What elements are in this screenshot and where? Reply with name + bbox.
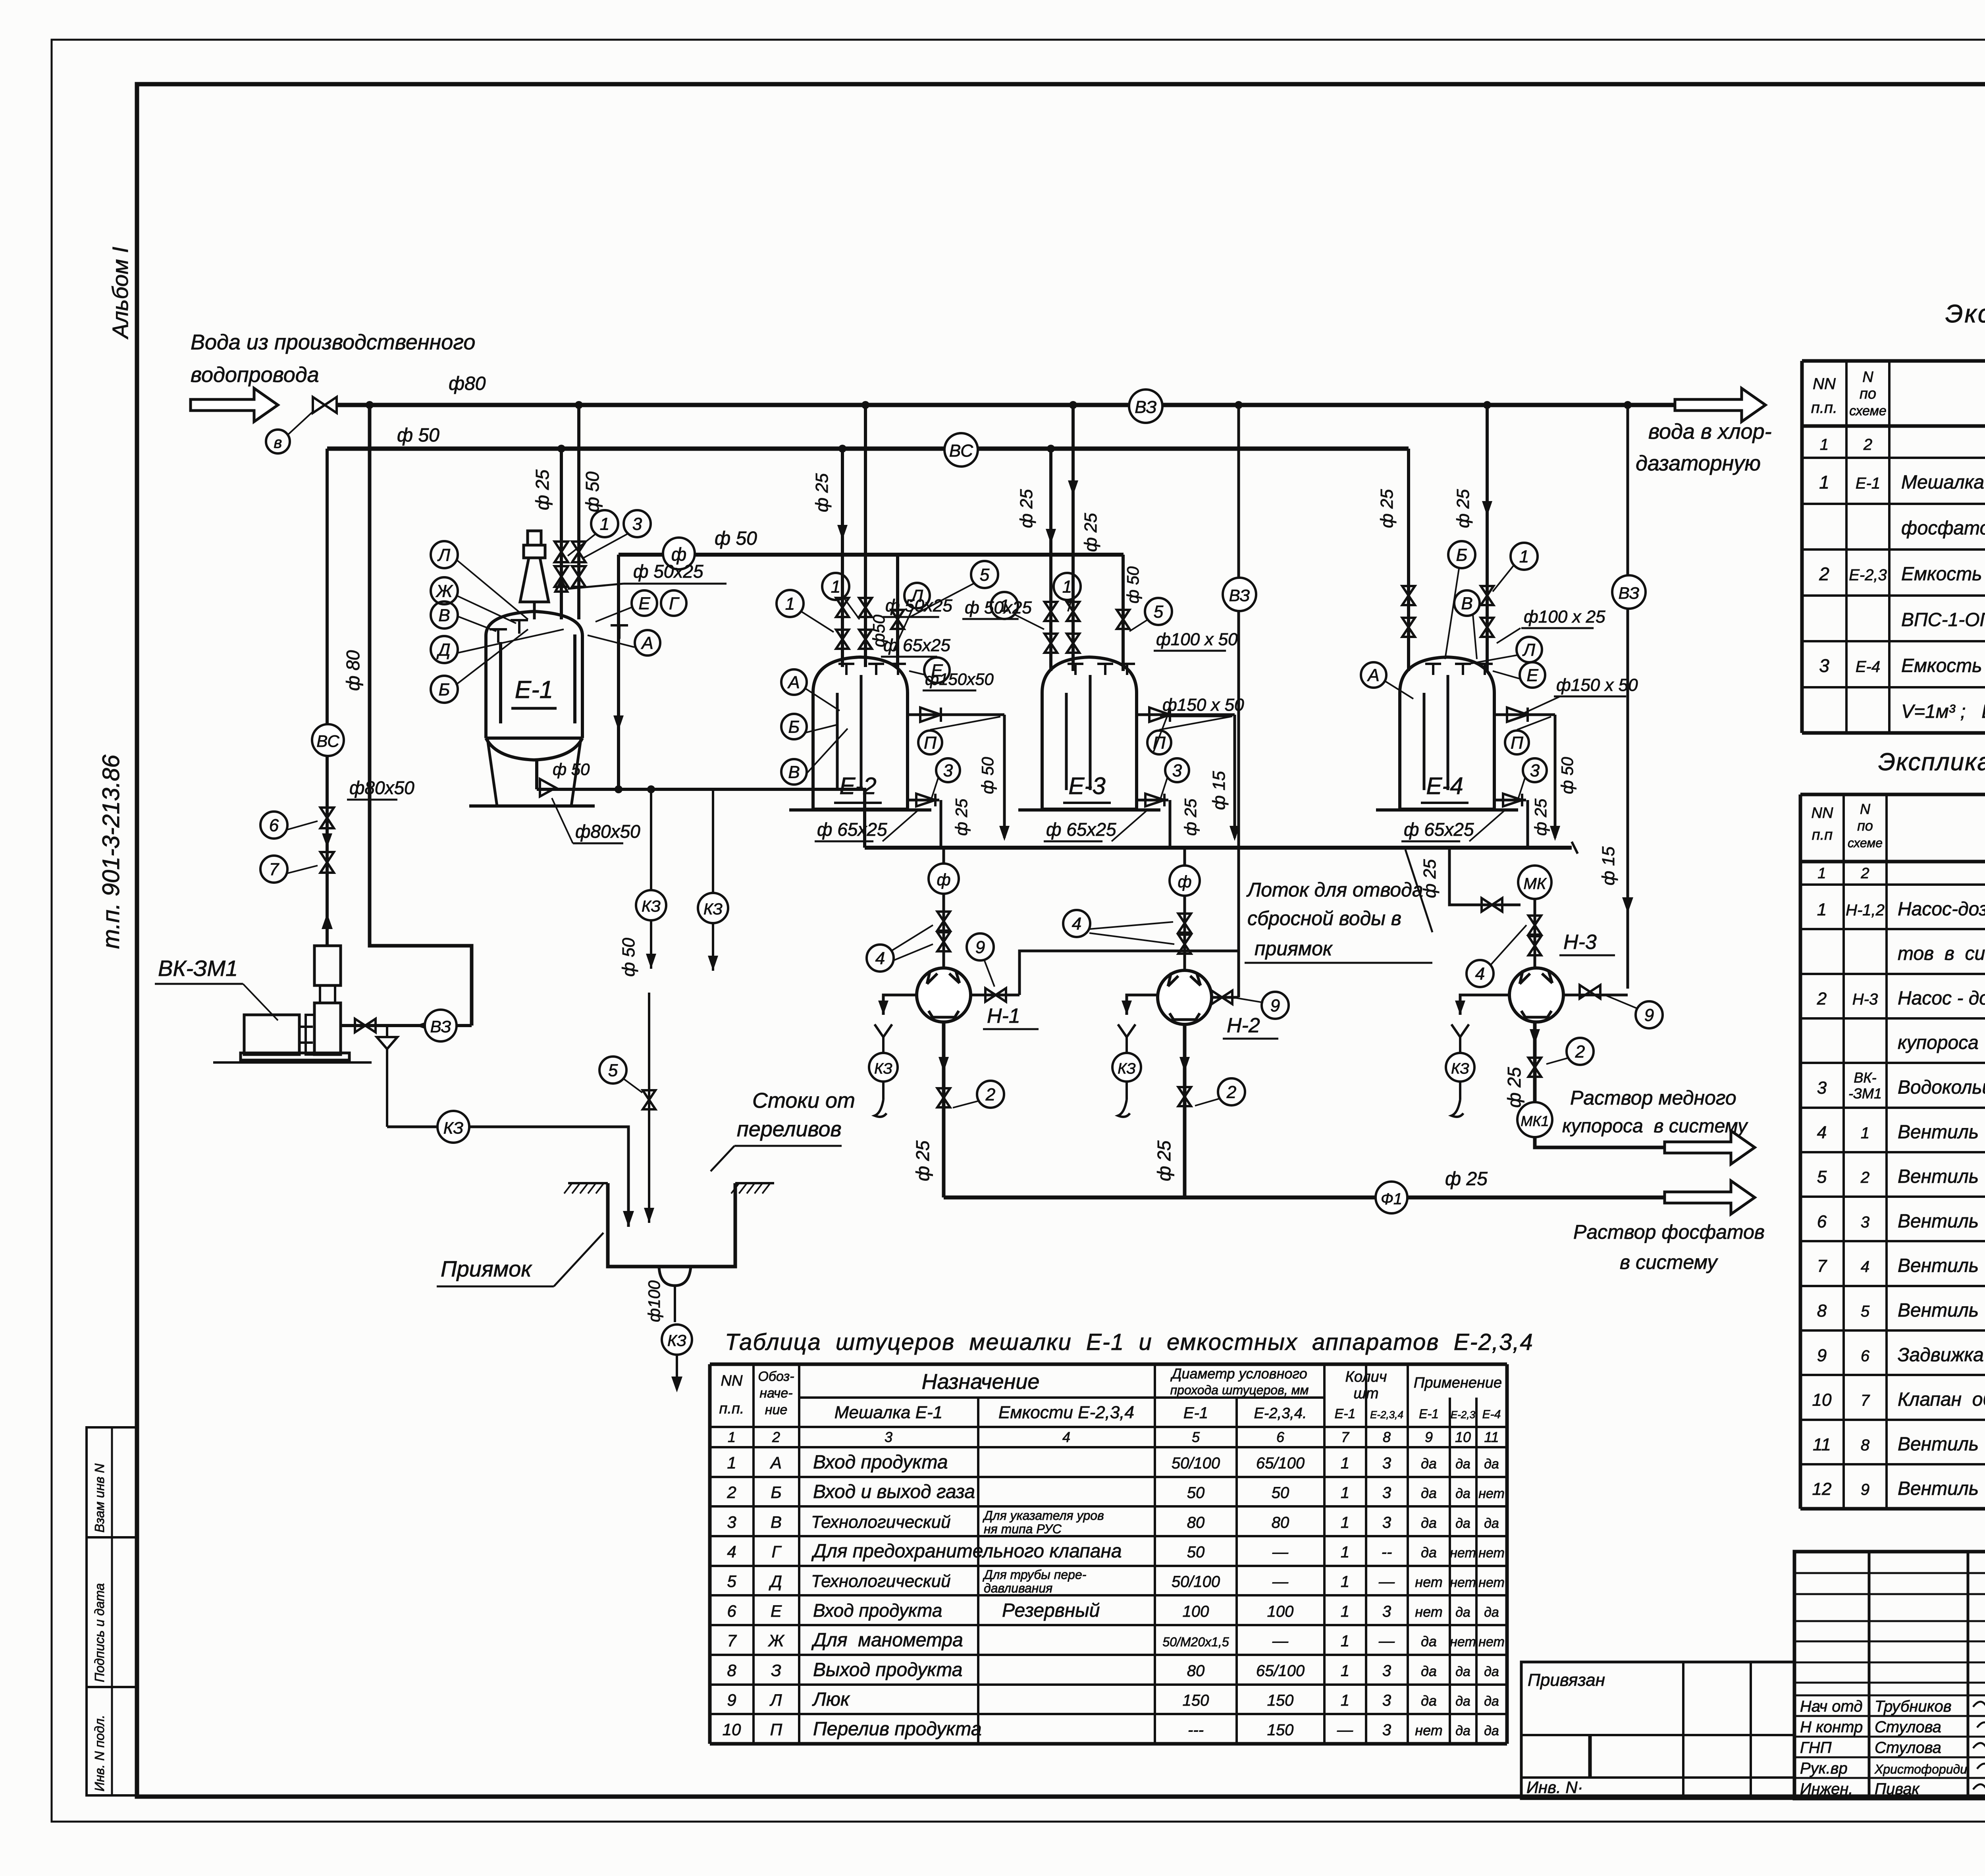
svg-text:--: -- <box>1382 1543 1392 1561</box>
svg-text:нет: нет <box>1415 1574 1442 1590</box>
svg-text:да: да <box>1455 1724 1470 1739</box>
pipe VS drop to compressor <box>326 449 329 946</box>
pipe main VZ line f80 <box>337 403 1675 407</box>
svg-text:1: 1 <box>1817 900 1827 919</box>
svg-text:Люк: Люк <box>812 1689 850 1710</box>
svg-text:7: 7 <box>1817 1257 1827 1276</box>
svg-text:4: 4 <box>1062 1429 1070 1445</box>
svg-text:50/100: 50/100 <box>1172 1573 1220 1591</box>
svg-text:да: да <box>1484 1664 1499 1679</box>
svg-text:3: 3 <box>1382 1603 1391 1620</box>
tank Е-2 vessel <box>813 657 908 809</box>
svg-text:3: 3 <box>885 1429 892 1445</box>
svg-text:да: да <box>1455 1694 1470 1709</box>
svg-text:нет: нет <box>1478 1575 1505 1590</box>
svg-text:3: 3 <box>727 1513 736 1531</box>
svg-text:Трубников: Трубников <box>1875 1698 1952 1715</box>
K3 drop 1 under E-1 <box>650 789 652 890</box>
svg-text:Колич: Колич <box>1345 1369 1387 1385</box>
valve tag circle 2 at H-2 <box>1218 1078 1245 1105</box>
pipe H-2 suction from seal drop <box>1212 996 1239 999</box>
svg-text:нет: нет <box>1450 1545 1476 1560</box>
valve tag circle 6 <box>260 812 287 839</box>
line tag circle ВС <box>944 433 978 467</box>
svg-text:ф 50: ф 50 <box>715 528 757 549</box>
svg-text:7: 7 <box>1341 1429 1350 1445</box>
svg-text:Е-2,3,4: Е-2,3,4 <box>1370 1409 1403 1421</box>
valve at inlet <box>313 397 337 413</box>
line tag circle МК <box>1518 866 1551 899</box>
line tag circle МК1 <box>1517 1102 1552 1137</box>
svg-text:Д: Д <box>436 640 451 659</box>
valve tag circle 9 at H-3 <box>1636 1001 1663 1028</box>
svg-text:Диаметр условного: Диаметр условного <box>1170 1365 1307 1382</box>
pipe K3 drain line to pit <box>387 1127 628 1227</box>
svg-text:нет: нет <box>1415 1722 1442 1739</box>
svg-text:нет: нет <box>1450 1635 1476 1650</box>
svg-text:Рук.вр: Рук.вр <box>1800 1760 1848 1777</box>
svg-text:—: — <box>1378 1573 1395 1591</box>
svg-text:ф 25: ф 25 <box>1445 1168 1488 1190</box>
svg-text:100: 100 <box>1267 1603 1294 1620</box>
svg-text:Инв. N·: Инв. N· <box>1526 1778 1583 1797</box>
svg-text:5: 5 <box>1192 1429 1200 1445</box>
svg-text:да: да <box>1455 1605 1470 1620</box>
svg-text:Ф1: Ф1 <box>1381 1190 1402 1208</box>
svg-text:—: — <box>1272 1543 1289 1561</box>
tank E-1 mixer vessel <box>486 611 582 738</box>
svg-text:КЗ: КЗ <box>874 1060 892 1077</box>
svg-text:3: 3 <box>1382 1454 1391 1472</box>
svg-text:Для манометра: Для манометра <box>811 1630 963 1651</box>
svg-text:9: 9 <box>1861 1481 1869 1498</box>
svg-text:10: 10 <box>1455 1429 1471 1445</box>
svg-text:6: 6 <box>1276 1429 1285 1445</box>
svg-text:4: 4 <box>1861 1258 1869 1276</box>
svg-text:да: да <box>1421 1485 1437 1501</box>
svg-text:5: 5 <box>727 1572 736 1591</box>
svg-text:Л: Л <box>1522 640 1536 659</box>
svg-text:ф 15: ф 15 <box>1599 846 1618 885</box>
svg-text:Подпись и дата: Подпись и дата <box>92 1583 107 1682</box>
svg-text:Е-2,3: Е-2,3 <box>1451 1409 1476 1421</box>
valves on H-2 feed <box>1178 914 1191 933</box>
callout underline <box>1245 962 1432 964</box>
svg-text:ф: ф <box>1178 872 1191 891</box>
pit bottom outlet <box>659 1267 691 1286</box>
valve on gas line <box>355 1019 376 1032</box>
svg-text:Е-2,3: Е-2,3 <box>1849 567 1887 584</box>
svg-text:1: 1 <box>1817 865 1826 882</box>
svg-text:П: П <box>924 733 937 752</box>
svg-text:ф 25: ф 25 <box>1017 489 1036 528</box>
svg-text:150: 150 <box>1267 1692 1294 1709</box>
svg-text:ня типа РУС: ня типа РУС <box>984 1522 1062 1536</box>
svg-text:3: 3 <box>1861 1213 1869 1231</box>
svg-text:7: 7 <box>1861 1392 1870 1409</box>
svg-text:Е-4: Е-4 <box>1482 1408 1501 1421</box>
title block upper grid rows <box>1794 1572 1985 1574</box>
svg-text:5: 5 <box>980 565 990 584</box>
line tag circle Ф1 <box>1376 1182 1407 1213</box>
tank Е-4 internal tubes <box>1423 693 1426 790</box>
svg-text:ВЗ: ВЗ <box>1619 584 1640 602</box>
svg-text:2: 2 <box>1575 1042 1585 1061</box>
svg-text:нет: нет <box>1478 1545 1505 1560</box>
svg-text:Б: Б <box>771 1483 781 1502</box>
svg-text:Е-1: Е-1 <box>1335 1406 1356 1421</box>
svg-text:Е: Е <box>1526 665 1538 685</box>
ground hatch left of pit <box>568 1182 608 1184</box>
svg-text:Технологический: Технологический <box>811 1571 951 1591</box>
svg-text:ф 25: ф 25 <box>812 473 832 512</box>
svg-text:ВК-ЗМ1: ВК-ЗМ1 <box>158 956 238 981</box>
svg-text:—: — <box>1272 1633 1289 1650</box>
pipe H-1 discharge loop to seal line <box>971 994 1019 997</box>
svg-text:Н контр: Н контр <box>1800 1718 1863 1736</box>
junction dots on VS line <box>557 445 565 453</box>
valve tag circle 2 at H-1 <box>977 1081 1004 1108</box>
svg-text:ф 25: ф 25 <box>1377 489 1397 528</box>
svg-text:нет: нет <box>1450 1575 1476 1590</box>
nozzle tag circle П <box>918 731 942 754</box>
line tag circle КЗ on drain <box>437 1111 469 1143</box>
svg-text:Е: Е <box>638 594 650 613</box>
svg-text:Вход продукта: Вход продукта <box>813 1452 948 1473</box>
svg-text:3: 3 <box>632 514 642 534</box>
valve tag circles at E-2 feeds <box>777 590 804 617</box>
pipe copper solution outlet <box>1535 1137 1665 1147</box>
junction dots on VZ main <box>366 401 374 409</box>
svg-text:Клапан обратный 19ч21бр; Ду: Клапан обратный 19ч21бр; Ду 80, Ру 1,6Мп… <box>1898 1389 1985 1410</box>
svg-text:2: 2 <box>1226 1082 1236 1102</box>
svg-text:в: в <box>274 434 282 451</box>
svg-text:Г: Г <box>772 1542 782 1561</box>
valves on E-1 f25 feed <box>555 542 568 562</box>
svg-text:1: 1 <box>1341 1662 1349 1679</box>
svg-text:-ЗМ1: -ЗМ1 <box>1848 1085 1882 1102</box>
svg-text:да: да <box>1455 1456 1470 1471</box>
svg-text:1: 1 <box>1819 472 1829 493</box>
valves on E-4 feeds <box>1402 586 1415 605</box>
table explication of apparatus <box>1802 359 1985 363</box>
svg-text:Вентиль 15ч 64п; Ду 50; Р: Вентиль 15ч 64п; Ду 50; Ру 0,6Мпа <box>1898 1300 1985 1321</box>
svg-text:10: 10 <box>1812 1390 1832 1410</box>
svg-text:т.п. 901-3-213.86: т.п. 901-3-213.86 <box>98 754 124 949</box>
svg-text:ф 25: ф 25 <box>1453 489 1473 528</box>
svg-text:ВЗ: ВЗ <box>430 1017 451 1036</box>
svg-text:Экспликация аппаратов: Экспликация аппаратов <box>1945 299 1985 328</box>
svg-text:6: 6 <box>1817 1212 1827 1231</box>
svg-text:ф 50: ф 50 <box>1124 566 1142 603</box>
svg-text:11: 11 <box>1484 1429 1499 1445</box>
svg-text:п.п: п.п <box>1812 827 1833 843</box>
tank E-1 support legs <box>488 739 497 806</box>
svg-text:1: 1 <box>1341 1692 1349 1709</box>
svg-text:50: 50 <box>1272 1484 1289 1502</box>
svg-text:да: да <box>1421 1455 1437 1471</box>
svg-text:Альбом I: Альбом I <box>108 247 133 339</box>
svg-text:65/100: 65/100 <box>1256 1662 1305 1679</box>
svg-text:50: 50 <box>1187 1543 1205 1561</box>
valve tag circles at E-4 <box>1448 541 1475 568</box>
svg-text:Е-4: Е-4 <box>1856 658 1880 676</box>
svg-text:50/М20х1,5: 50/М20х1,5 <box>1162 1635 1229 1649</box>
tank bottom drain and valve <box>1137 799 1168 802</box>
svg-text:8: 8 <box>1817 1301 1827 1321</box>
svg-text:нет: нет <box>1478 1635 1505 1650</box>
line tag circle КЗ at pump <box>1112 1053 1141 1082</box>
svg-text:ф: ф <box>937 870 950 889</box>
pipe branch f25 to pump H-3 <box>1449 848 1521 905</box>
svg-text:Е-1: Е-1 <box>1856 475 1880 492</box>
pipe feed f50 from VZ main to E-1 <box>577 405 580 619</box>
svg-text:Вентиль 15кч18п; Ду 15, Ру: Вентиль 15кч18п; Ду 15, Ру 1,6Мпа <box>1898 1478 1985 1499</box>
svg-text:Б: Б <box>788 717 800 737</box>
svg-text:—: — <box>1272 1573 1289 1591</box>
svg-text:5: 5 <box>1154 602 1164 621</box>
pipe f25 feed from VZ main to E-4 <box>1486 405 1489 671</box>
svg-text:да: да <box>1421 1693 1437 1709</box>
svg-text:в систему: в систему <box>1620 1251 1718 1273</box>
svg-text:Е-2: Е-2 <box>839 773 876 799</box>
svg-text:Задвижка 30ч6бр; Ду 80; Р: Задвижка 30ч6бр; Ду 80; Ру 1,0Мпа <box>1898 1344 1985 1365</box>
svg-text:12: 12 <box>1812 1479 1832 1499</box>
svg-text:1: 1 <box>727 1453 736 1472</box>
svg-text:да: да <box>1421 1544 1437 1560</box>
svg-text:3: 3 <box>1530 761 1540 780</box>
svg-text:Приямок: Приямок <box>441 1256 532 1281</box>
svg-text:5: 5 <box>608 1060 618 1080</box>
svg-text:2: 2 <box>1819 564 1829 584</box>
pipe feed to H-2 with sample circle Ф <box>1183 848 1186 970</box>
nozzle tag circle П <box>1505 731 1529 754</box>
pipe waste collection line to pit channel <box>865 846 1572 850</box>
pit priyamok walls <box>608 1183 735 1267</box>
svg-text:ф80х50: ф80х50 <box>349 777 414 798</box>
svg-text:да: да <box>1421 1633 1437 1650</box>
pipe f15 drop to H-3 pump <box>1627 405 1629 989</box>
svg-text:схеме: схеме <box>1849 403 1887 418</box>
svg-text:Н-1: Н-1 <box>987 1005 1020 1028</box>
svg-text:по: по <box>1857 817 1873 834</box>
svg-text:Водокольцевой компрессор ВК-: Водокольцевой компрессор ВК-ЗМ1 <box>1898 1077 1985 1098</box>
outlet arrow phosphate solution <box>1665 1181 1755 1214</box>
svg-text:3: 3 <box>943 761 953 780</box>
pipe f25 feed from VS end to E-4 <box>1407 449 1410 671</box>
valve tag circles at E-3 feeds <box>991 592 1018 619</box>
svg-text:КЗ: КЗ <box>667 1332 686 1350</box>
svg-text:2: 2 <box>1817 989 1827 1008</box>
valve tag circle 4 at H-2 <box>1063 910 1090 937</box>
svg-text:Ж: Ж <box>436 581 453 601</box>
svg-text:Технологический: Технологический <box>811 1512 951 1532</box>
line tag circle ВЗ on main <box>1129 389 1162 423</box>
svg-text:Е-2,3,4.: Е-2,3,4. <box>1254 1405 1307 1422</box>
svg-text:ф 25: ф 25 <box>1081 513 1100 552</box>
svg-text:ф 50х25: ф 50х25 <box>885 596 952 615</box>
line tag circle Ф <box>663 538 695 569</box>
title block vertical dividers <box>1868 1552 1871 1799</box>
valve tag circle 5 at pit <box>599 1057 626 1084</box>
valve tag circle 9 at H-2 <box>1262 992 1289 1019</box>
svg-text:4: 4 <box>727 1542 736 1561</box>
svg-text:4: 4 <box>1817 1123 1827 1142</box>
svg-text:Вентиль 15кч18п; Ду 50, Р: Вентиль 15кч18п; Ду 50, Ру 1,6Мпа <box>1898 1211 1985 1232</box>
svg-text:Стулова: Стулова <box>1875 1739 1941 1756</box>
inlet arrow water from production line <box>191 388 278 422</box>
svg-text:9: 9 <box>1817 1346 1827 1365</box>
svg-text:Вентиль 15кч 18п; Ду 25, Р: Вентиль 15кч 18п; Ду 25, Ру 1,6Мпа <box>1898 1122 1985 1143</box>
svg-text:да: да <box>1484 1694 1499 1709</box>
svg-text:ф 50: ф 50 <box>582 471 603 512</box>
tank E-1 internal dip tubes <box>499 642 502 723</box>
left margin stamp table <box>87 1427 137 1795</box>
svg-text:Д: Д <box>769 1572 782 1591</box>
pump suction funnel line <box>1127 995 1158 1015</box>
svg-text:ние: ние <box>765 1402 788 1417</box>
svg-text:да: да <box>1484 1456 1499 1471</box>
svg-text:---: --- <box>1188 1722 1204 1739</box>
nozzle tag circle Е right of E-2 <box>924 657 950 683</box>
svg-text:ф80: ф80 <box>449 373 486 394</box>
svg-text:100: 100 <box>1183 1603 1209 1620</box>
svg-text:1: 1 <box>1861 1124 1869 1142</box>
svg-text:да: да <box>1484 1605 1499 1620</box>
svg-text:9: 9 <box>1270 996 1280 1015</box>
svg-text:3: 3 <box>1819 656 1829 676</box>
svg-text:ф 65х25: ф 65х25 <box>817 819 887 840</box>
svg-text:ВЗ: ВЗ <box>1229 586 1250 605</box>
tank bottom drain and valve <box>1494 799 1526 802</box>
svg-text:КЗ: КЗ <box>443 1118 464 1137</box>
svg-text:3: 3 <box>1382 1662 1391 1679</box>
svg-text:да: да <box>1455 1486 1470 1501</box>
tank E-1 nozzles on dome <box>490 628 507 630</box>
pipe f80 drop from main to gas line <box>370 405 472 1026</box>
svg-text:ф 25: ф 25 <box>1504 1067 1524 1108</box>
svg-text:А: А <box>1366 665 1379 685</box>
svg-text:Е: Е <box>771 1602 782 1620</box>
svg-text:В: В <box>771 1513 782 1531</box>
svg-text:Привязан: Привязан <box>1528 1670 1605 1690</box>
attachment table left of stamp <box>1521 1662 1794 1799</box>
pump Н-2 dosing pump <box>1158 970 1212 1024</box>
svg-text:ф 65х25: ф 65х25 <box>883 636 950 655</box>
svg-text:1: 1 <box>1341 1603 1349 1620</box>
svg-text:1: 1 <box>1341 1484 1349 1502</box>
svg-text:Ж: Ж <box>768 1631 785 1650</box>
tank bottom drain and valve <box>908 799 939 802</box>
svg-text:П: П <box>770 1720 782 1739</box>
svg-text:ВПС-1-ОГ-001: ВПС-1-ОГ-001 <box>1901 609 1985 630</box>
pipe H-1 discharge down <box>942 1022 946 1197</box>
valves on E-3 feeds <box>1045 602 1057 621</box>
svg-text:Е-4: Е-4 <box>1426 773 1463 799</box>
svg-text:Г: Г <box>669 594 680 613</box>
svg-text:3: 3 <box>1382 1514 1391 1531</box>
svg-text:9: 9 <box>727 1691 736 1709</box>
svg-text:Н-1,2: Н-1,2 <box>1846 901 1885 919</box>
svg-text:ф150 х 50: ф150 х 50 <box>1162 695 1244 715</box>
tank overflow stub and riser <box>908 713 1004 716</box>
svg-text:ф 50х25: ф 50х25 <box>633 561 703 582</box>
drain funnel under gas line <box>386 1026 388 1037</box>
svg-text:2: 2 <box>727 1483 736 1502</box>
svg-text:ф100: ф100 <box>645 1280 663 1322</box>
svg-text:1: 1 <box>1062 577 1072 596</box>
line tag circle КЗ under pit <box>662 1325 692 1355</box>
svg-text:1: 1 <box>1341 1633 1349 1650</box>
svg-text:Насос - дозатор для подачи: Насос - дозатор для подачи раствора медн… <box>1898 988 1985 1009</box>
svg-text:да: да <box>1455 1664 1470 1679</box>
air arrow up into VS drop <box>322 913 333 929</box>
svg-text:3: 3 <box>1817 1078 1827 1098</box>
svg-text:З: З <box>771 1661 781 1679</box>
svg-text:Стулова: Стулова <box>1875 1718 1941 1736</box>
svg-text:4: 4 <box>875 949 885 968</box>
tank Е-3 base line <box>1018 808 1160 812</box>
svg-text:В: В <box>438 605 450 625</box>
svg-text:да: да <box>1484 1516 1499 1531</box>
svg-text:Л: Л <box>437 545 451 565</box>
line tag circle ВЗ at compressor <box>425 1010 457 1041</box>
svg-text:50: 50 <box>1187 1484 1205 1502</box>
pipe f50 feed from F line to E-2 <box>896 555 899 667</box>
svg-text:Емкость для раствора медного к: Емкость для раствора медного купороса <box>1901 656 1985 677</box>
tank Е-4 base line <box>1376 808 1518 812</box>
outlet arrow to chlorine dosing room <box>1675 388 1765 422</box>
svg-text:ф150х50: ф150х50 <box>925 670 994 688</box>
svg-text:Б: Б <box>439 680 450 699</box>
svg-text:Применение: Применение <box>1414 1375 1502 1391</box>
table of nozzles <box>710 1363 1507 1366</box>
svg-text:МК1: МК1 <box>1521 1113 1549 1129</box>
svg-text:Взам инв N: Взам инв N <box>92 1463 107 1533</box>
pipe F distribution line f50 to tanks <box>619 553 1124 557</box>
svg-text:ВЗ: ВЗ <box>1135 397 1156 417</box>
svg-text:1: 1 <box>831 577 840 596</box>
svg-text:7: 7 <box>727 1631 737 1650</box>
svg-text:Л: Л <box>769 1691 782 1709</box>
svg-text:п.п.: п.п. <box>1811 399 1837 416</box>
svg-text:7: 7 <box>269 860 279 879</box>
pipe f25 feeds to E-2 <box>841 449 844 667</box>
svg-text:ф100 х 25: ф100 х 25 <box>1524 607 1605 627</box>
pipe f25 feeds to E-3 <box>1049 449 1052 671</box>
svg-text:Лоток для отвода: Лоток для отвода <box>1246 879 1423 901</box>
svg-text:80: 80 <box>1187 1662 1205 1679</box>
svg-text:ГНП: ГНП <box>1800 1739 1832 1756</box>
svg-text:Н-3: Н-3 <box>1563 931 1597 954</box>
ground line under compressor <box>213 1061 372 1064</box>
svg-text:Вентиль 15ч14бр; Ду 80; Ру: Вентиль 15ч14бр; Ду 80; Ру 1,6Мпа <box>1898 1434 1985 1455</box>
svg-text:Назначение: Назначение <box>922 1370 1040 1394</box>
svg-text:ф 50х25: ф 50х25 <box>965 598 1032 617</box>
svg-text:купороса в систему: купороса в систему <box>1562 1116 1748 1137</box>
svg-text:6: 6 <box>1861 1347 1870 1365</box>
svg-text:Пивак: Пивак <box>1875 1780 1920 1798</box>
svg-text:тов в систему; НД-2,5 400/: тов в систему; НД-2,5 400/16 Д 14А <box>1898 943 1985 964</box>
svg-text:ф 25: ф 25 <box>1420 859 1440 898</box>
tank Е-4 dome nozzles <box>1425 663 1441 665</box>
svg-text:NN: NN <box>1812 805 1833 821</box>
valve tag circles 1 and 3 at E-1 <box>591 510 618 537</box>
pipe f15 drop to H-2 pump <box>1237 405 1240 951</box>
svg-text:3: 3 <box>1382 1484 1391 1502</box>
tank overflow stub and riser <box>1494 713 1555 716</box>
svg-text:ф 50: ф 50 <box>553 760 590 779</box>
